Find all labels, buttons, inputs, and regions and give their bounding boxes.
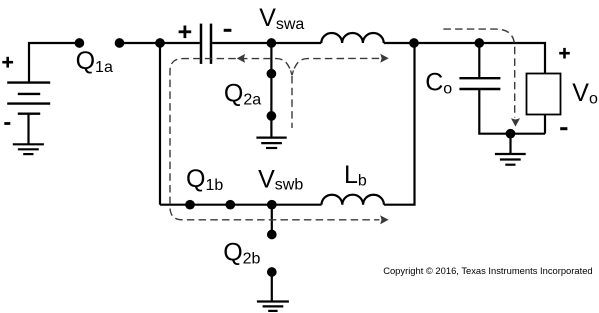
wire output node to ground (509, 134, 511, 154)
svg-text:Copyright © 2016, Texas Instru: Copyright © 2016, Texas Instruments Inco… (383, 265, 592, 276)
dashed current loop left (Ct charge loop) (170, 59, 380, 220)
+ label output (559, 48, 570, 59)
wire capacitor Co bottom to output node (479, 89, 545, 134)
wire inductor La to node B (384, 42, 415, 44)
ground output (495, 154, 526, 165)
- label output (560, 127, 567, 130)
wire load bottom (544, 115, 546, 134)
load resistor rectangle (527, 74, 561, 115)
node Q1b left terminal (185, 200, 195, 210)
capacitor Co vertical leads (478, 43, 480, 78)
ground Q2b (257, 302, 289, 311)
wire capacitor Ct to node Vswa (212, 42, 271, 44)
inductor La (321, 33, 383, 43)
wire bottom rail Q1b (160, 204, 322, 206)
- label capacitor Ct (224, 29, 232, 32)
node Q2b source (267, 267, 277, 277)
node Q1a left terminal (75, 38, 85, 48)
dashed arrowhead down-pointing at output (511, 118, 520, 126)
node Co top (474, 38, 484, 48)
inductor Lb (322, 195, 384, 205)
+ label capacitor Ct (179, 26, 192, 39)
dashed output current path (443, 29, 514, 117)
wire Q2b source to ground (271, 272, 273, 302)
node Q1a right terminal (115, 38, 125, 48)
node Q2a drain (267, 69, 277, 79)
capacitor Ct plates (201, 24, 211, 64)
node Vswb (267, 200, 277, 210)
wire node Vswa to inductor La (271, 42, 321, 44)
dashed fork arrow barbs (291, 70, 294, 75)
node A top of left branch (155, 38, 165, 48)
- label battery (4, 122, 10, 125)
wire battery top to Q1a (29, 43, 76, 82)
ground Q2a (256, 138, 286, 148)
dashed arrowhead right-pointing toward La (380, 54, 388, 63)
node Vswa (267, 38, 277, 48)
dashed arrowhead right-pointing on bottom segment (380, 215, 388, 224)
node Q2a source (267, 111, 277, 121)
wire node Co to load corner (479, 43, 545, 74)
dashed current branch right toward La (293, 58, 380, 72)
battery V_in plates (7, 83, 50, 114)
wire Vswa down to Q2a (270, 43, 272, 138)
wire left branch vertical (159, 43, 161, 205)
wire Vswb down to Q2b (271, 205, 273, 235)
wire Q1a to node A (120, 42, 161, 44)
wire node B to node Co (414, 42, 479, 44)
wire battery bottom to ground (27, 114, 29, 145)
dashed arrowhead left-pointing on top segment (237, 54, 245, 63)
ground battery (13, 144, 44, 154)
dashed vertical stem below Vswa (291, 76, 293, 128)
wire node A to capacitor Ct (160, 42, 200, 44)
node Q1b right terminal (225, 200, 235, 210)
node output ground junction (506, 129, 516, 139)
wire inductor Lb to right vertical (384, 43, 415, 205)
+ label battery (2, 57, 13, 68)
node Q2b drain (267, 230, 277, 240)
capacitor Co plates (459, 78, 500, 89)
node B (409, 38, 419, 48)
